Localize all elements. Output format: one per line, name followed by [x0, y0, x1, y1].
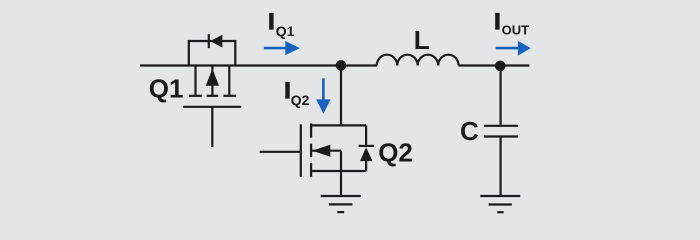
svg-text:I: I	[494, 9, 500, 34]
triangle	[360, 147, 373, 161]
wire node to top plate	[500, 66, 502, 125]
current label I_Q1	[268, 9, 294, 39]
drain stub	[311, 124, 341, 126]
body diode of Q1 (loop over the top)	[189, 34, 236, 65]
wire bottom plate to ground	[500, 138, 502, 196]
svg-text:OUT: OUT	[502, 23, 529, 38]
wire: junction down to Q2 drain	[340, 66, 342, 126]
current label I_Q2	[284, 78, 309, 108]
channel segment middle	[310, 144, 312, 158]
transistor Q1 (P-MOSFET, rotated)	[183, 66, 241, 148]
bulk tie vertical	[340, 151, 342, 171]
bottom plate	[484, 135, 518, 137]
top plate	[484, 125, 518, 127]
svg-text:Q2: Q2	[291, 92, 310, 108]
left contact stub	[194, 66, 196, 95]
svg-text:Q2: Q2	[378, 137, 413, 167]
svg-text:Q1: Q1	[276, 23, 295, 39]
current arrow I_OUT (blue, right)	[496, 41, 531, 56]
bulk line with arrow	[311, 150, 341, 152]
wire to body diode top	[341, 124, 366, 126]
svg-text:Q1: Q1	[149, 74, 184, 104]
current label I_OUT	[494, 9, 529, 37]
channel bar middle	[207, 95, 219, 97]
wire: main horizontal rail from Q1 source side to inductor	[140, 64, 377, 66]
wire: inductor to output	[459, 64, 530, 66]
ground under Q2	[321, 196, 361, 212]
gate lead	[260, 151, 301, 153]
diode cathode bar	[208, 34, 210, 48]
right contact stub	[228, 66, 230, 95]
capacitor C	[484, 66, 518, 196]
body diode of Q2	[359, 125, 374, 171]
gate stub	[211, 107, 213, 147]
source line	[311, 170, 366, 172]
diode triangle	[210, 35, 222, 48]
cathode bar	[359, 145, 374, 147]
svg-text:C: C	[460, 116, 479, 146]
node: switch junction dot	[336, 60, 347, 71]
gate electrode	[300, 124, 302, 177]
gate plate	[183, 106, 241, 108]
channel segment top	[310, 123, 312, 137]
current arrow I_Q2 (blue, down)	[316, 78, 330, 114]
wire: Q2 source to ground	[340, 171, 342, 196]
current arrow I_Q1 (blue, right)	[264, 41, 300, 55]
channel segment bottom	[310, 163, 312, 177]
inductor L	[377, 55, 459, 66]
svg-text:L: L	[414, 25, 430, 55]
ground under C	[480, 196, 520, 212]
transistor Q2 (N-MOSFET)	[260, 123, 366, 176]
node: output dot	[495, 61, 506, 72]
svg-text:I: I	[268, 9, 274, 34]
channel bar left	[189, 95, 202, 97]
wire loop	[189, 41, 236, 66]
bulk connection with arrow	[211, 66, 213, 96]
channel bar right	[224, 95, 237, 97]
